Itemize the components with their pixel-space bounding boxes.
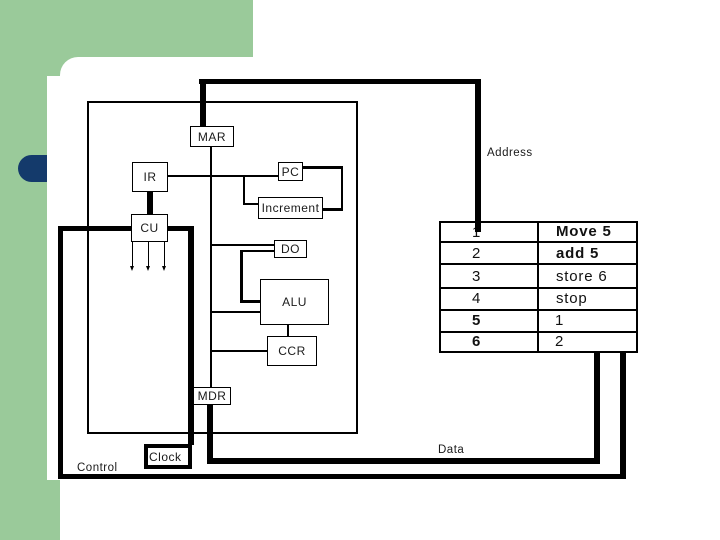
wire branch to Increment left: horizontal (243, 203, 258, 205)
wire PC right loop: top horizontal (302, 166, 343, 169)
memory row 3 (439, 263, 638, 289)
wire DO to ALU loop: bottom horizontal (240, 300, 260, 303)
control unit CU (131, 214, 168, 242)
data bus: bottom horizontal (207, 458, 600, 464)
control bus: left vertical (58, 226, 63, 479)
CU to clock bus: horizontal from CU (167, 226, 194, 231)
register IR (132, 162, 168, 192)
green top band (0, 0, 253, 110)
memory row 6 (439, 331, 638, 353)
memory row 5 (439, 309, 638, 333)
register CCR (267, 336, 317, 366)
CU to clock bus: vertical (188, 226, 194, 445)
label Control (77, 462, 118, 474)
wire PC right loop: bottom horizontal to Increment (323, 208, 343, 211)
CU output arrow 1 (132, 242, 134, 266)
address bus: right vertical to memory (475, 79, 481, 232)
wire bus to DO (211, 244, 274, 246)
CPU boundary box (87, 101, 358, 434)
wire IR to PC (168, 175, 278, 177)
Increment unit (258, 197, 323, 219)
memory row 2 (439, 241, 638, 265)
register PC (278, 162, 303, 181)
white side panel (47, 76, 77, 480)
wire bus to CCR (211, 350, 267, 352)
register MAR (190, 126, 234, 147)
register MDR (193, 387, 231, 405)
memory row 4 (439, 287, 638, 311)
address bus overlay into memory row 1 (475, 221, 481, 232)
wire PC right loop: vertical (341, 166, 344, 210)
address bus: top horizontal (199, 79, 481, 84)
memory table (439, 221, 638, 352)
address bus: stub to MAR (200, 79, 206, 127)
data bus: right vertical to memory (594, 352, 600, 464)
internal bus vertical MAR to MDR (210, 146, 212, 388)
memory row 1 (439, 221, 638, 243)
IR to CU thick link (147, 191, 153, 215)
control bus: bottom segment (58, 474, 626, 479)
wire ALU to CCR (287, 325, 290, 338)
data bus: vertical from MDR (207, 404, 213, 464)
control bus: right vertical to memory (620, 352, 626, 479)
memory contents column (556, 223, 612, 240)
control bus: top segment (58, 226, 132, 231)
navy bullet capsule (18, 155, 47, 182)
memory addresses column (472, 224, 481, 241)
memory column divider (537, 221, 539, 352)
CU output arrow 3 (164, 242, 166, 266)
wire branch down to Increment left: vertical (243, 175, 245, 205)
register DO (274, 240, 307, 258)
label Address (487, 147, 533, 159)
Clock (144, 444, 192, 469)
ALU (260, 279, 329, 325)
wire DO to ALU loop: vertical (240, 250, 243, 303)
wire DO to ALU loop: top horizontal (240, 250, 274, 253)
wire bus to ALU (211, 311, 260, 313)
label Data (438, 444, 464, 456)
CU output arrow 2 (148, 242, 150, 266)
white rounded content panel (60, 57, 720, 480)
green left sidebar (0, 0, 60, 540)
